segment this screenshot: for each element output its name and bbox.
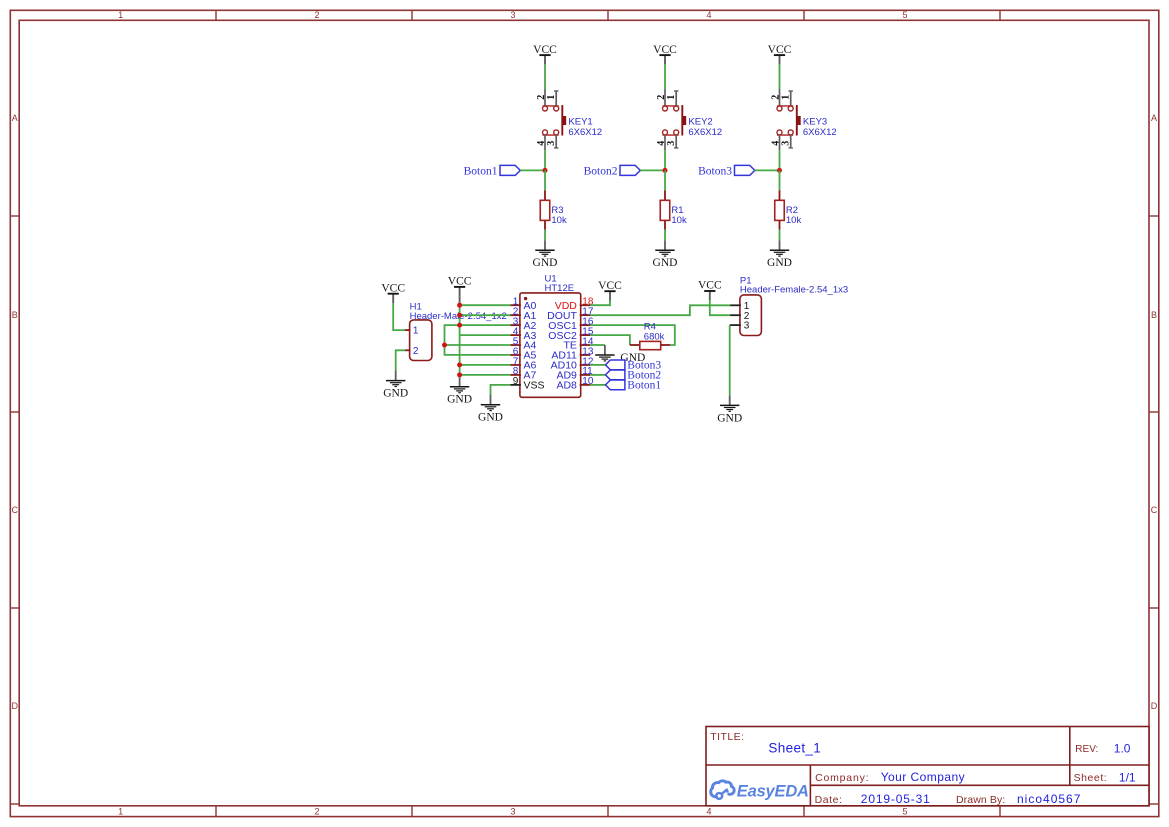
svg-text:1: 1 xyxy=(781,95,792,100)
pushbutton KEY2 xyxy=(656,89,722,150)
title block xyxy=(706,727,1149,807)
wire junction to R1 xyxy=(664,170,666,190)
U1 pin 10 AD8 xyxy=(580,384,591,386)
wire U1 DOUT to P1 pin 1 xyxy=(590,305,730,315)
pin 2 line xyxy=(664,89,666,106)
svg-text:6X6X12: 6X6X12 xyxy=(688,127,722,138)
wire bus to U1 pin 7 xyxy=(460,364,511,366)
pin 3 line xyxy=(555,135,557,148)
junction bus pin2 xyxy=(457,313,462,318)
wire VCC bus vertical xyxy=(459,296,461,305)
wire U1 pin 3 to pin 6 net xyxy=(445,325,511,355)
U1 pin 6 A5 xyxy=(511,354,521,356)
wire bus to U1 pin 8 xyxy=(460,374,511,376)
pin 3 line xyxy=(790,135,792,148)
ground below R2 xyxy=(767,240,792,269)
switch contacts bottom xyxy=(663,134,679,136)
VCC net flag at P1 xyxy=(698,280,722,301)
pin 2 line xyxy=(544,89,546,106)
svg-text:GND: GND xyxy=(653,257,678,269)
wire VCC to P1 pin 2 xyxy=(710,300,730,315)
svg-text:Boton2: Boton2 xyxy=(584,166,618,178)
svg-text:3: 3 xyxy=(666,141,677,146)
svg-text:C: C xyxy=(1151,505,1158,515)
svg-text:680k: 680k xyxy=(644,331,665,342)
wire KEY1 pin 4 to junction xyxy=(544,150,546,170)
U1 pin 13 AD11 xyxy=(580,354,591,356)
svg-text:1/1: 1/1 xyxy=(1119,771,1136,785)
U1 pin 11 AD9 xyxy=(580,374,591,376)
ground below R3 xyxy=(533,240,558,269)
wire VCC to H1 pin 1 xyxy=(393,303,405,330)
svg-text:VCC: VCC xyxy=(533,44,557,56)
ground at U1 VSS xyxy=(478,395,503,424)
U1 pin1 marker dot xyxy=(524,297,527,300)
net flag Boton3 at U1 xyxy=(606,360,662,372)
svg-text:D: D xyxy=(1151,701,1158,711)
ground below P1 xyxy=(717,395,742,424)
net flag Boton1 at U1 xyxy=(606,380,662,392)
svg-text:GND: GND xyxy=(767,257,792,269)
svg-text:Boton1: Boton1 xyxy=(627,380,661,392)
wire U1 OSC1 to R4 xyxy=(590,325,675,345)
svg-text:VCC: VCC xyxy=(768,44,792,56)
wire Boton1 flag to junction xyxy=(520,169,545,171)
svg-text:2: 2 xyxy=(314,10,319,20)
switch contacts bottom xyxy=(543,134,559,136)
svg-text:Your Company: Your Company xyxy=(881,770,965,784)
ground at U1 TE xyxy=(595,345,645,364)
svg-text:GND: GND xyxy=(533,257,558,269)
VCC net flag at U1 address bus xyxy=(448,276,472,297)
svg-text:3: 3 xyxy=(510,10,515,20)
svg-text:B: B xyxy=(12,310,18,320)
ground at H1 xyxy=(383,371,408,400)
svg-text:KEY3: KEY3 xyxy=(803,117,827,128)
svg-text:2: 2 xyxy=(413,346,419,357)
svg-text:2019-05-31: 2019-05-31 xyxy=(861,792,931,806)
U1 pin 9 VSS xyxy=(511,384,521,386)
U1 pin 3 A2 xyxy=(511,324,521,326)
U1 pin 2 A1 xyxy=(511,314,521,316)
VCC net flag at U1 VDD xyxy=(598,280,622,301)
wire U1 TE to GND xyxy=(590,344,605,346)
wire R1 to GND xyxy=(664,230,666,240)
U1 pin 5 A4 xyxy=(511,344,521,346)
svg-text:A: A xyxy=(1151,113,1157,123)
junction bus pin7 xyxy=(457,362,462,367)
resistor R3 xyxy=(540,190,567,229)
net flag Boton3 at KEY3 xyxy=(698,165,755,177)
svg-text:KEY1: KEY1 xyxy=(568,117,592,128)
wire U1 pin 9 VSS to GND xyxy=(491,385,512,395)
junction bus pin8 xyxy=(457,372,462,377)
svg-text:TITLE:: TITLE: xyxy=(710,731,744,743)
svg-text:D: D xyxy=(11,701,18,711)
pin 4 line xyxy=(544,135,546,150)
actuator xyxy=(796,105,798,135)
svg-text:VCC: VCC xyxy=(598,280,622,292)
junction node Boton2 xyxy=(663,168,668,173)
wire KEY3 pin 4 to junction xyxy=(779,150,781,170)
svg-text:1: 1 xyxy=(413,326,419,337)
wire KEY2 pin 4 to junction xyxy=(664,150,666,170)
svg-text:1: 1 xyxy=(118,807,123,817)
U1 pin 16 OSC1 xyxy=(580,324,591,326)
junction node Boton1 xyxy=(543,168,548,173)
svg-text:REV:: REV: xyxy=(1075,744,1098,755)
svg-text:6X6X12: 6X6X12 xyxy=(568,127,602,138)
svg-text:VSS: VSS xyxy=(524,380,545,392)
svg-text:VCC: VCC xyxy=(698,280,722,292)
U1 pin 7 A6 xyxy=(511,364,521,366)
wire bus vertical xyxy=(459,305,461,377)
ground below address bus xyxy=(447,377,472,406)
wire U1 AD8 to Boton1 xyxy=(590,384,605,386)
resistor R4 680k xyxy=(630,321,670,349)
pin 4 line xyxy=(779,135,781,150)
switch contacts top xyxy=(543,105,559,107)
svg-text:AD8: AD8 xyxy=(556,380,577,392)
P1 pin 3 xyxy=(730,324,741,326)
svg-text:6X6X12: 6X6X12 xyxy=(803,127,837,138)
pin 1 line xyxy=(790,91,792,106)
VCC net flag at H1 xyxy=(381,282,405,303)
wire Boton2 flag to junction xyxy=(640,169,665,171)
svg-text:Drawn By:: Drawn By: xyxy=(956,794,1005,806)
pushbutton KEY1 xyxy=(536,89,602,150)
U1 pin 17 DOUT xyxy=(580,314,591,316)
wire VCC to KEY1 pin 2 xyxy=(544,64,546,89)
VCC net flag above KEY1 xyxy=(533,44,557,65)
pin 1 line xyxy=(675,91,677,106)
junction bus pin3 xyxy=(457,323,462,328)
wire A4 tap to U1 pin 5 xyxy=(445,344,511,346)
pin 2 line xyxy=(779,89,781,106)
svg-text:GND: GND xyxy=(717,412,742,424)
resistor R2 xyxy=(775,190,802,229)
wire bus to U1 pin 1 xyxy=(460,304,511,306)
net flag Boton1 at KEY1 xyxy=(464,165,521,177)
pin 1 line xyxy=(555,91,557,106)
svg-text:Header-Female-2.54_1x3: Header-Female-2.54_1x3 xyxy=(740,285,848,296)
actuator xyxy=(561,105,563,135)
svg-text:VCC: VCC xyxy=(448,276,472,288)
svg-text:GND: GND xyxy=(478,412,503,424)
svg-text:HT12E: HT12E xyxy=(545,283,575,294)
svg-text:C: C xyxy=(11,505,18,515)
wire R3 to GND xyxy=(544,230,546,240)
svg-text:Date:: Date: xyxy=(815,794,843,806)
svg-text:10k: 10k xyxy=(786,215,802,226)
svg-text:GND: GND xyxy=(447,394,472,406)
svg-text:10k: 10k xyxy=(671,215,687,226)
svg-text:3: 3 xyxy=(510,807,515,817)
H1 pin 2 xyxy=(405,349,411,351)
wire VCC to KEY2 pin 2 xyxy=(664,64,666,89)
wire R2 to GND xyxy=(779,230,781,240)
U1 pin 8 A7 xyxy=(511,374,521,376)
actuator xyxy=(681,105,683,135)
P1 pin 1 xyxy=(730,304,741,306)
svg-text:1: 1 xyxy=(118,10,123,20)
pin 3 line xyxy=(675,135,677,148)
U1 pin 15 OSC2 xyxy=(580,334,591,336)
resistor R1 xyxy=(660,190,687,229)
svg-text:4: 4 xyxy=(706,807,711,817)
ground below R1 xyxy=(653,240,678,269)
net flag Boton2 at U1 xyxy=(606,370,662,382)
switch contacts bottom xyxy=(777,134,793,136)
VCC net flag above KEY3 xyxy=(768,44,792,65)
header P1 Header-Female-2.54_1x3 xyxy=(730,276,848,336)
wire junction to R3 xyxy=(544,170,546,190)
IC U1 HT12E encoder xyxy=(511,274,594,398)
H1 pin 1 xyxy=(405,329,411,331)
wire P1 pin 3 to GND xyxy=(729,325,731,395)
wire U1 VDD to VCC xyxy=(590,301,610,306)
EasyEDA logo xyxy=(711,781,734,799)
switch contacts top xyxy=(777,105,793,107)
junction A4 tap xyxy=(442,343,447,348)
wire Boton3 flag to junction xyxy=(755,169,780,171)
wire U1 OSC2 to R4 xyxy=(590,335,630,345)
svg-text:nico40567: nico40567 xyxy=(1017,792,1081,806)
svg-text:Sheet_1: Sheet_1 xyxy=(768,740,821,755)
svg-text:9: 9 xyxy=(513,376,519,387)
svg-text:KEY2: KEY2 xyxy=(688,117,712,128)
U1 pin 1 A0 xyxy=(511,304,521,306)
U1 pin 18 VDD xyxy=(580,304,591,306)
svg-text:Boton1: Boton1 xyxy=(464,166,498,178)
wire bus to U1 pin 4 xyxy=(460,334,511,336)
svg-text:Sheet:: Sheet: xyxy=(1074,772,1108,784)
svg-text:Boton3: Boton3 xyxy=(698,166,732,178)
VCC net flag above KEY2 xyxy=(653,44,677,65)
svg-text:EasyEDA: EasyEDA xyxy=(737,782,809,800)
U1 pin 12 AD10 xyxy=(580,364,591,366)
svg-text:VCC: VCC xyxy=(653,44,677,56)
svg-text:Company:: Company: xyxy=(815,772,869,784)
svg-text:1.0: 1.0 xyxy=(1114,742,1131,756)
svg-text:3: 3 xyxy=(781,141,792,146)
pushbutton KEY3 xyxy=(771,89,837,150)
U1 pin 14 TE xyxy=(580,344,591,346)
junction bus pin1 xyxy=(457,303,462,308)
switch contacts top xyxy=(663,105,679,107)
svg-text:3: 3 xyxy=(744,321,750,332)
svg-text:A: A xyxy=(12,113,18,123)
svg-text:1: 1 xyxy=(546,95,557,100)
wire junction to R2 xyxy=(779,170,781,190)
junction node Boton3 xyxy=(777,168,782,173)
wire bus to U1 pin 2 xyxy=(460,314,511,316)
svg-text:GND: GND xyxy=(383,388,408,400)
pin 4 line xyxy=(664,135,666,150)
svg-text:1: 1 xyxy=(666,95,677,100)
svg-text:B: B xyxy=(1151,310,1157,320)
U1 pin 4 A3 xyxy=(511,334,521,336)
header H1 Header-Male-2.54_1x2 xyxy=(405,302,507,361)
wire VCC to KEY3 pin 2 xyxy=(779,64,781,89)
svg-text:5: 5 xyxy=(902,10,907,20)
P1 pin 2 xyxy=(730,314,741,316)
svg-text:4: 4 xyxy=(706,10,711,20)
wire U1 AD10 to Boton3 xyxy=(590,364,605,366)
svg-text:VCC: VCC xyxy=(381,282,405,294)
wire H1 pin 2 to GND xyxy=(396,350,405,370)
net flag Boton2 at KEY2 xyxy=(584,165,641,177)
svg-text:5: 5 xyxy=(902,807,907,817)
svg-text:10k: 10k xyxy=(551,215,567,226)
svg-text:2: 2 xyxy=(314,807,319,817)
svg-text:3: 3 xyxy=(546,141,557,146)
wire U1 AD9 to Boton2 xyxy=(590,374,605,376)
